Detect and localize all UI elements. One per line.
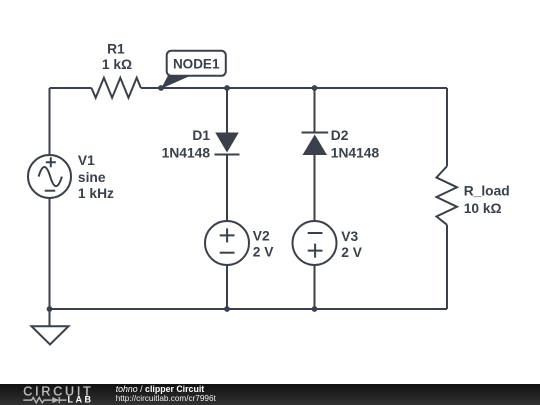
svg-text:2 V: 2 V (341, 245, 363, 260)
svg-text:tohno / clipper Circuit: tohno / clipper Circuit (116, 384, 205, 394)
svg-text:V3: V3 (341, 229, 358, 244)
svg-text:R_load: R_load (464, 184, 510, 199)
svg-text:1N4148: 1N4148 (162, 146, 211, 161)
svg-text:1 kHz: 1 kHz (78, 186, 114, 201)
svg-text:V1: V1 (78, 153, 95, 168)
svg-text:sine: sine (78, 170, 106, 185)
svg-text:1N4148: 1N4148 (331, 146, 380, 161)
svg-text:NODE1: NODE1 (173, 57, 220, 72)
svg-text:LAB: LAB (68, 395, 94, 405)
svg-text:2 V: 2 V (253, 245, 275, 260)
svg-text:V2: V2 (253, 229, 270, 244)
svg-text:1 kΩ: 1 kΩ (102, 57, 132, 72)
svg-text:http://circuitlab.com/cr7996t: http://circuitlab.com/cr7996t (116, 394, 217, 403)
svg-text:R1: R1 (107, 41, 125, 56)
svg-text:D1: D1 (192, 128, 210, 143)
svg-text:10 kΩ: 10 kΩ (464, 201, 502, 216)
svg-text:D2: D2 (331, 128, 349, 143)
